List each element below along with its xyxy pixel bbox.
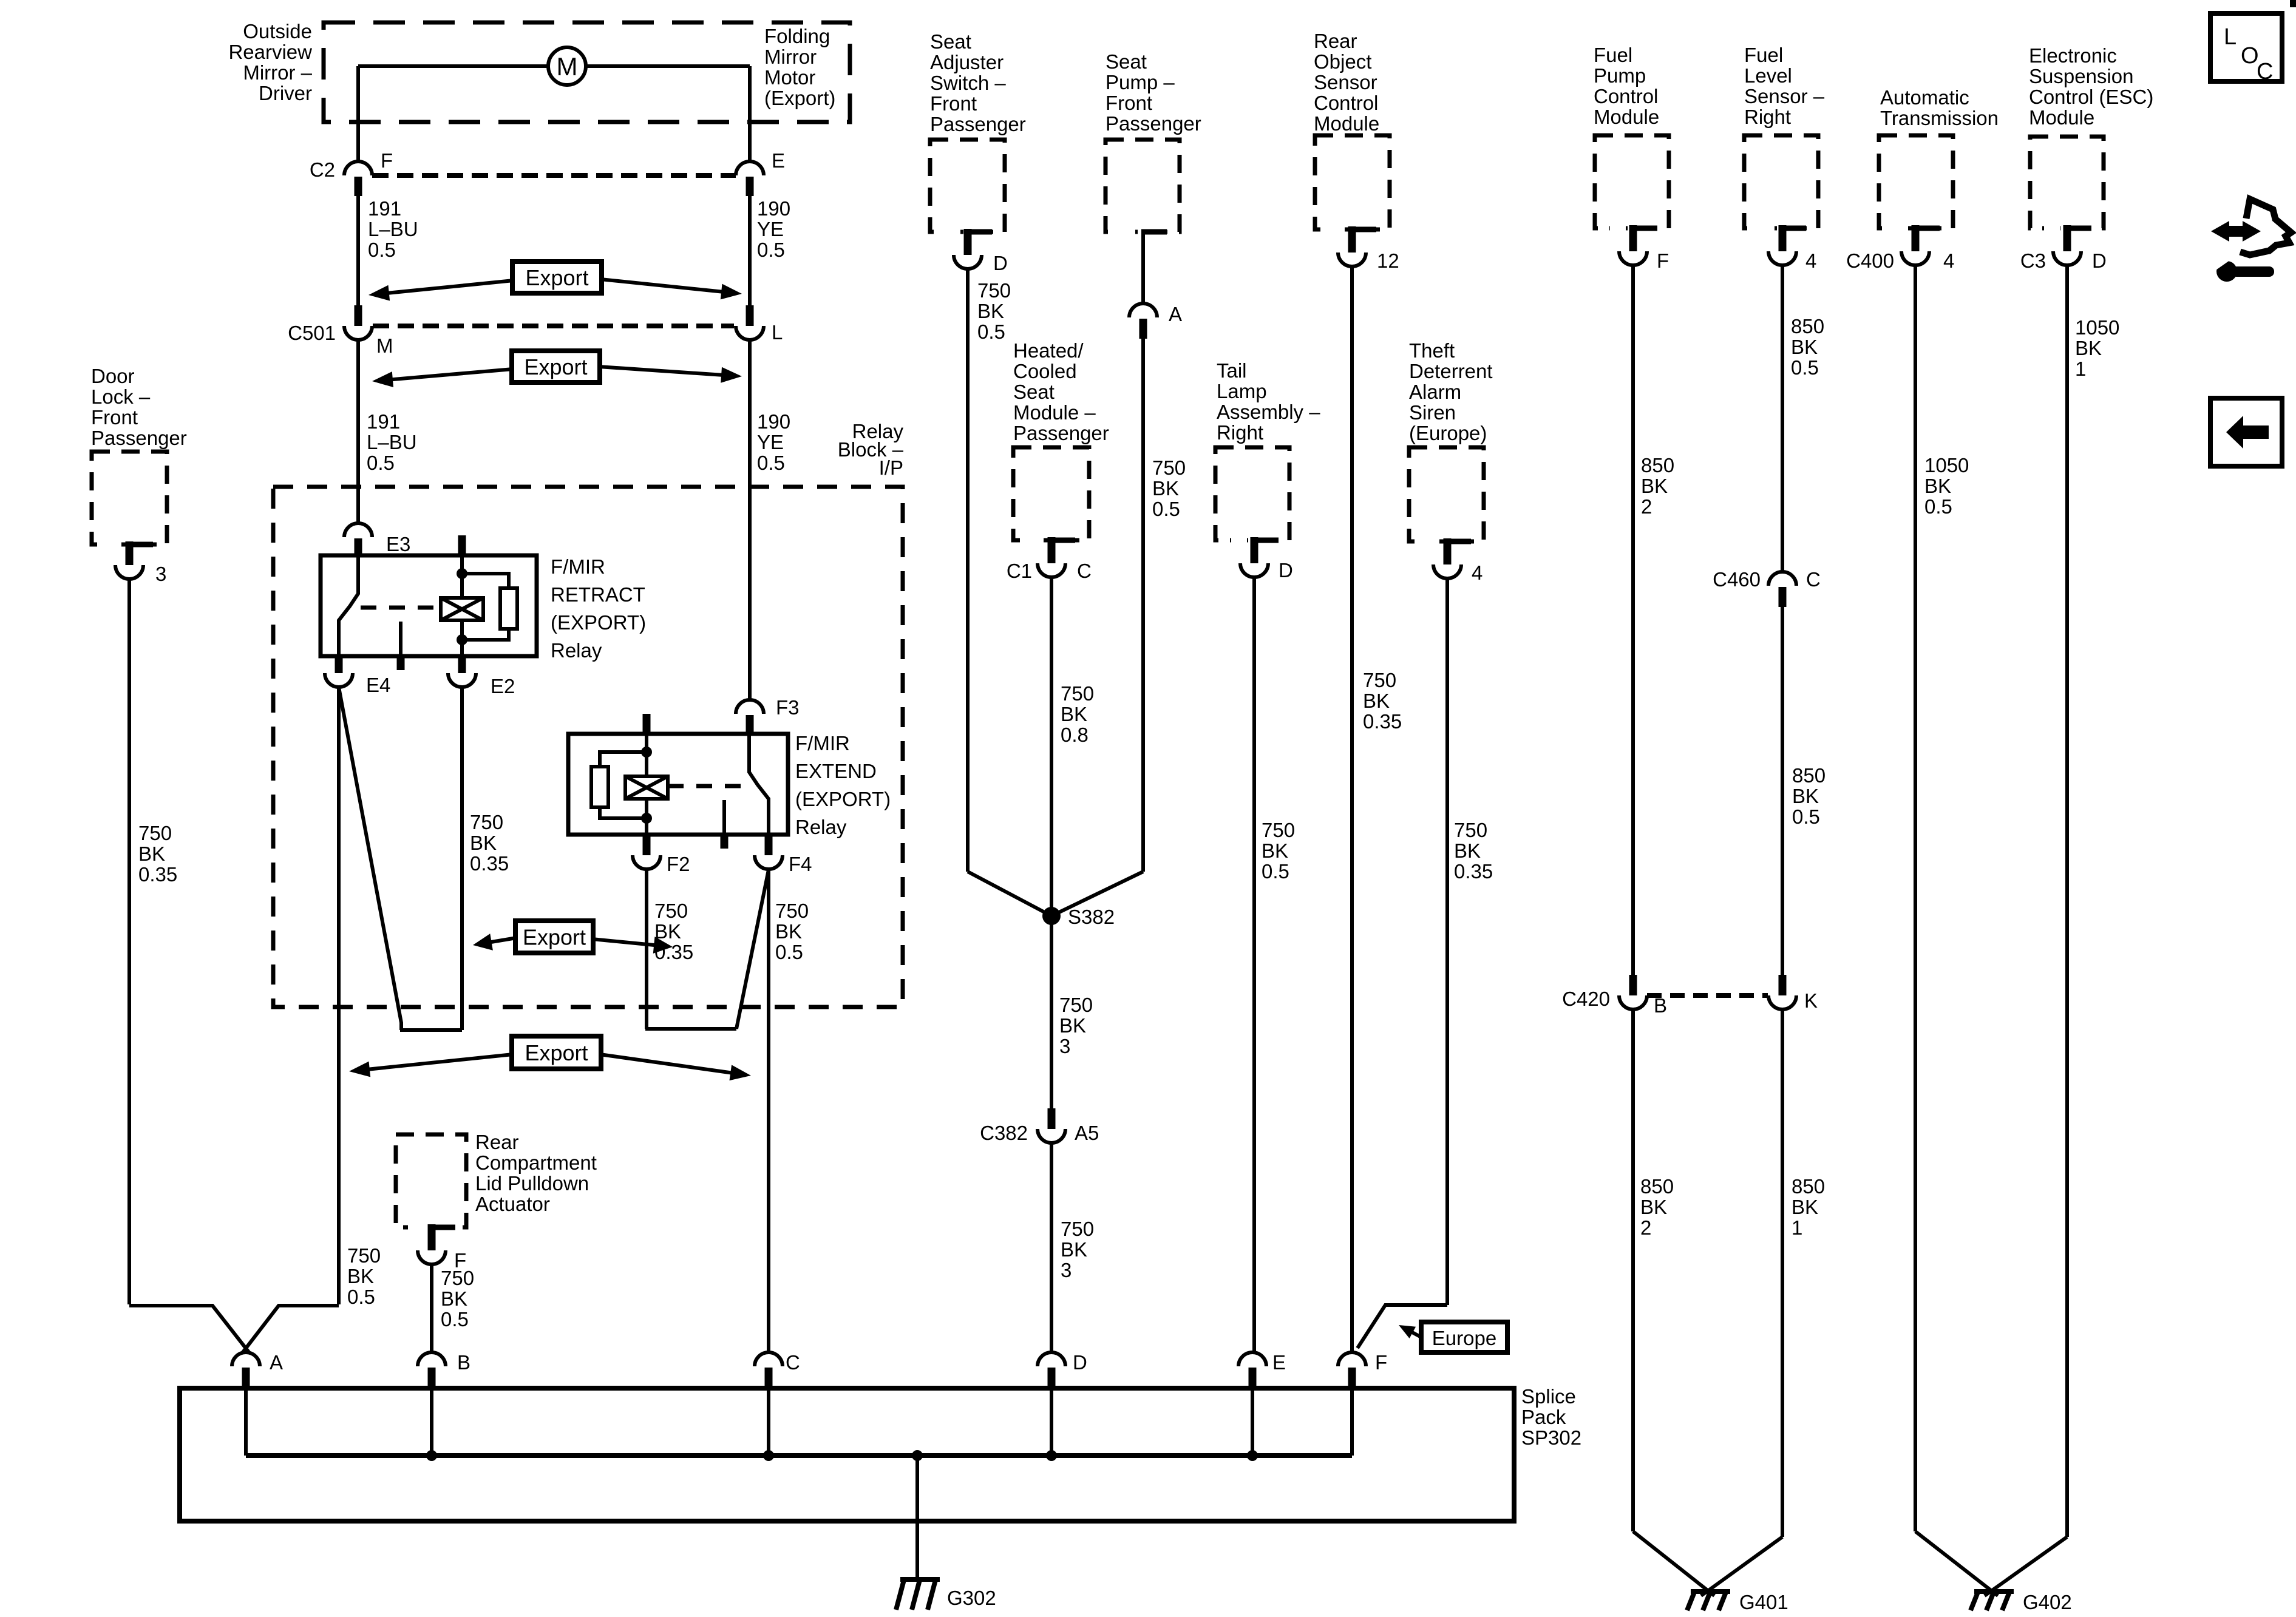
wire 750 BK 0.5 seat adjuster down (966, 269, 970, 872)
svg-text:12: 12 (1377, 249, 1399, 272)
connector rear compartment pin F (418, 1250, 446, 1264)
connector seat pump pin A (1129, 303, 1157, 317)
svg-text:F: F (1375, 1351, 1387, 1374)
ground G401 (1687, 1592, 1730, 1610)
svg-text:4: 4 (1943, 249, 1954, 272)
terminal stub C420-K (1779, 975, 1787, 995)
relay K1 coil bottom lead (460, 620, 464, 656)
connector tail lamp pin D (1240, 563, 1268, 577)
terminal stub C460-C (1779, 587, 1787, 607)
wire 750 BK 0.5 tail lamp down to splice E (1252, 577, 1256, 1353)
relay K1 coil top terminal stub (458, 535, 466, 555)
icon double arrow (2211, 221, 2229, 242)
component box Rear Object Sensor Control Module (1315, 135, 1390, 229)
svg-text:L: L (2224, 24, 2237, 50)
connector relay block terminal F3 (736, 700, 764, 714)
terminal stub fuel pump F (1629, 225, 1637, 251)
connector relay block terminal F2 (633, 855, 661, 869)
svg-text:4: 4 (1472, 561, 1483, 584)
terminal stub C501-M (355, 305, 362, 326)
terminal stub rear object 12 (1348, 226, 1356, 253)
relay K1 coil top lead (460, 555, 464, 598)
relay K2 coil X diagonal 2 (625, 776, 668, 799)
relay K1 coil box (441, 598, 483, 620)
relay K1 actuation dashed link (361, 606, 441, 610)
relay K2 coil X diagonal 1 (625, 776, 668, 799)
junction coil top K1 (457, 568, 467, 579)
wire motor feed horizontal (358, 64, 750, 68)
connector splice terminal C (755, 1352, 783, 1366)
svg-text:A5: A5 (1075, 1122, 1099, 1144)
relay K1 resistor loop top (462, 574, 509, 588)
component box Rear Compartment Lid Pulldown Actuator (396, 1134, 466, 1227)
icon LOC box (2210, 13, 2282, 81)
connector relay block terminal E4 (325, 673, 353, 687)
connector C460 pin C (1768, 572, 1796, 586)
relay K2 resistor loop bottom (600, 807, 647, 818)
terminal stub E4 (335, 656, 343, 673)
svg-text:E2: E2 (491, 675, 515, 697)
terminal stub F4 (765, 835, 773, 855)
relay K2 resistor (591, 767, 608, 807)
wire slant up to F4 (736, 870, 769, 1029)
svg-text:E: E (772, 149, 785, 172)
connector C400 pin 4 (1901, 251, 1929, 265)
export arrow left third (479, 938, 517, 944)
relay K1 NC stub inner (399, 622, 402, 654)
connector C3 pin D (2053, 251, 2081, 265)
svg-text:C1: C1 (1007, 560, 1032, 582)
wire fuel level slant to G401 (1701, 1537, 1782, 1596)
wire 191 L-BU lower to E3 (356, 340, 360, 523)
export arrow left fourth (355, 1054, 513, 1071)
svg-text:D: D (1279, 559, 1293, 581)
wire door lock jog to splice A (129, 1306, 250, 1353)
connector C2 terminal E (736, 161, 764, 175)
wire E4 slant to E2 U-joint (339, 687, 401, 1030)
relay K1 F/MIR RETRACT (EXPORT) box (321, 555, 537, 656)
connector C501 terminal L (736, 326, 764, 340)
ground G402 (1971, 1592, 2014, 1610)
wire 750 BK 0.5 rear compartment down (430, 1264, 433, 1353)
svg-text:C3: C3 (2020, 249, 2046, 272)
terminal stub C2-F (355, 177, 362, 196)
europe arrow (1404, 1328, 1421, 1337)
svg-text:C460: C460 (1713, 568, 1761, 591)
junction splice bus (426, 1450, 437, 1461)
svg-text:B: B (457, 1351, 470, 1374)
connector C382 pin A5 (1038, 1129, 1065, 1143)
callout Export upper (512, 262, 602, 293)
splice pack SP302 box (180, 1388, 1514, 1521)
svg-text:G401: G401 (1739, 1591, 1788, 1613)
svg-text:F: F (1657, 249, 1669, 272)
svg-text:C2: C2 (310, 158, 335, 181)
svg-text:D: D (1073, 1351, 1087, 1374)
callout Export fourth (512, 1036, 601, 1069)
connector mating line C501 row (373, 324, 734, 328)
wire 850 BK 0.5 lower (1781, 607, 1784, 975)
relay K2 resistor loop top (600, 752, 647, 767)
icon back arrow (2226, 416, 2269, 449)
splice internal lead A (244, 1388, 248, 1456)
wire 190 YE lower to F3 (748, 340, 752, 700)
wire left mirror drop to C2 (356, 66, 360, 162)
wire theft jog to splice F (1357, 1305, 1447, 1348)
wire 750 BK 0.5 seat pump down (1141, 339, 1145, 872)
wire U-joint F2-F4 (645, 1027, 736, 1031)
terminal stub C420-B (1629, 975, 1637, 995)
terminal stub F3 (746, 715, 754, 734)
terminal stub rear compartment F (428, 1224, 436, 1250)
splice internal lead B (430, 1388, 433, 1456)
wire 1050 BK 1 down (2065, 265, 2069, 1537)
connector mating line C2 row (372, 173, 736, 178)
terminal stub theft 4 (1444, 538, 1452, 564)
connector splice terminal D (1038, 1352, 1065, 1366)
terminal stub E2 (458, 656, 466, 673)
relay K1 switch (339, 555, 358, 656)
relay K2 coil box (625, 776, 668, 799)
relay K1 coil X diagonal 1 (441, 598, 483, 620)
export arrow right second (599, 367, 736, 376)
wire 850 BK 0.5 upper (1781, 265, 1784, 572)
svg-text:F2: F2 (667, 853, 690, 875)
svg-text:C420: C420 (1562, 988, 1610, 1010)
component box Fuel Level Sensor - Right (1744, 135, 1818, 228)
relay K1 coil X diagonal 2 (441, 598, 483, 620)
export arrow right third (592, 939, 667, 946)
svg-text:L: L (772, 321, 783, 344)
wire 190 YE upper (748, 196, 752, 305)
wire seat pump to connector A (1141, 232, 1145, 304)
ground G302 (896, 1579, 940, 1610)
terminal stub tail lamp D (1251, 537, 1258, 563)
callout Export third (515, 921, 593, 953)
svg-text:C: C (786, 1351, 800, 1374)
component box Door Lock - Front Passenger (92, 452, 167, 544)
svg-text:D: D (993, 252, 1008, 274)
relay K2 F/MIR EXTEND (EXPORT) box (568, 734, 788, 835)
connector C2 terminal F (344, 161, 372, 175)
terminal stub C400-4 (1912, 225, 1920, 251)
connector splice terminal B (418, 1352, 446, 1366)
relay K2 coil top lead (645, 734, 648, 776)
svg-text:3: 3 (155, 563, 166, 585)
wire E4 branch down to splice A (337, 687, 341, 1304)
terminal stub heated seat C1-C (1048, 537, 1056, 563)
terminal stub splice E (1249, 1368, 1257, 1388)
junction splice center drop (912, 1450, 923, 1461)
wire E4 jog to splice A (242, 1306, 339, 1353)
connector seat adjuster pin D (954, 255, 982, 269)
component box ESC Module (2030, 137, 2104, 228)
terminal stub C2-E (746, 177, 754, 196)
icon component outline (2240, 199, 2291, 255)
wire auto trans slant to G402 (1915, 1531, 1998, 1596)
svg-text:A: A (270, 1351, 283, 1374)
splice S382 (1042, 907, 1061, 925)
connector mating line C420 (1647, 993, 1768, 998)
icon wrench (2216, 261, 2237, 282)
wire ESC slant to G402 (1985, 1537, 2067, 1596)
svg-text:C: C (1806, 568, 1821, 591)
relay K2 NC stub inner (722, 800, 726, 833)
component box Tail Lamp Assembly - Right (1215, 447, 1289, 540)
terminal stub C382-A5 (1048, 1108, 1056, 1129)
wire 750 BK 3 down to C382 (1050, 916, 1053, 1108)
export arrow left second (378, 369, 513, 381)
wire F4 down to splice C (767, 869, 770, 1353)
svg-text:M: M (557, 52, 578, 81)
terminal stub C501-L (746, 305, 754, 326)
splice bus SP302 (246, 1453, 1352, 1458)
connector fuel pump pin F (1619, 251, 1647, 265)
terminal stub splice A (242, 1368, 250, 1388)
wire 850 BK 2 fuel pump down (1631, 265, 1635, 975)
svg-text:K: K (1804, 989, 1818, 1012)
connector fuel level pin 4 (1768, 251, 1796, 265)
callout Europe (1421, 1322, 1507, 1352)
component box Theft Deterrent Alarm Siren (1409, 447, 1484, 541)
svg-text:M: M (376, 334, 393, 357)
wire F2 down (645, 869, 648, 1029)
connector splice terminal E (1238, 1352, 1266, 1366)
export arrow right upper (600, 279, 736, 293)
connector C501 terminal M (344, 326, 372, 340)
terminal stub door lock pin 3 (126, 541, 134, 565)
wire seat adjuster slant to S382 (968, 872, 1051, 916)
page corner mark (2290, 0, 2296, 7)
terminal stub F2 (643, 835, 651, 855)
wire 850 BK 2 lower (1631, 1009, 1635, 1531)
svg-text:Export: Export (523, 925, 586, 950)
terminal stub seat pump A (1140, 319, 1147, 339)
component box Heated/Cooled Seat Module (1013, 447, 1089, 540)
component box Outside Rearview Mirror / Folding Mirror Motor (324, 22, 850, 122)
wire fuel pump slant to G401 (1633, 1531, 1714, 1596)
junction splice bus (763, 1450, 774, 1461)
svg-text:C: C (2257, 59, 2273, 84)
wire seat pump slant to S382 (1051, 872, 1143, 916)
terminal stub splice C (765, 1368, 773, 1388)
connector relay block terminal E3 (344, 523, 372, 537)
svg-text:D: D (2092, 249, 2107, 272)
icon back-arrow box (2210, 398, 2282, 466)
wire 850 BK 1 down (1781, 1009, 1784, 1537)
relay K1 NC stub outer (397, 654, 405, 670)
terminal stub E3 (355, 538, 362, 556)
junction splice bus (1046, 1450, 1057, 1461)
junction coil bottom K2 (641, 813, 652, 824)
svg-text:F: F (381, 149, 393, 172)
connector splice terminal A (232, 1352, 260, 1366)
svg-text:C400: C400 (1846, 249, 1894, 272)
component box Automatic Transmission (1879, 135, 1953, 228)
svg-text:G402: G402 (2023, 1591, 2072, 1613)
component box Seat Adjuster Switch (930, 140, 1005, 232)
svg-text:C382: C382 (980, 1122, 1028, 1144)
wire 1050 BK 0.5 down (1914, 265, 1917, 1531)
terminal stub C3-D (2063, 225, 2071, 251)
wire 191 L-BU upper (356, 196, 360, 305)
relay K2 actuation dashed link (668, 784, 747, 788)
wire U-joint E4-E2 (400, 1028, 462, 1032)
connector relay block terminal E2 (448, 673, 476, 687)
connector C420 pin B (1619, 995, 1647, 1009)
connector relay block terminal F4 (755, 855, 783, 869)
svg-text:F4: F4 (789, 853, 812, 875)
svg-text:Europe: Europe (1432, 1327, 1496, 1349)
svg-text:Export: Export (524, 354, 587, 379)
relay K2 coil bottom lead (645, 799, 648, 835)
terminal stub splice D (1048, 1368, 1056, 1388)
connector splice terminal F (1338, 1352, 1366, 1366)
splice internal lead F (1350, 1388, 1354, 1456)
component box Fuel Pump Control Module (1595, 135, 1669, 228)
connector rear object pin 12 (1338, 253, 1366, 266)
svg-text:E: E (1272, 1351, 1286, 1374)
connector C420 pin K (1768, 995, 1796, 1009)
svg-text:Export: Export (525, 265, 588, 290)
connector theft pin 4 (1433, 564, 1461, 578)
terminal stub splice F (1348, 1368, 1356, 1388)
wire 750 BK 0.35 rear object down to splice F (1350, 266, 1354, 1353)
terminal stub seat adjuster D (964, 229, 972, 255)
svg-text:A: A (1169, 303, 1182, 325)
splice internal lead C (767, 1388, 770, 1456)
wire right mirror drop to E (748, 66, 752, 162)
connector heated seat C1 pin C (1038, 563, 1065, 577)
export arrow left upper (375, 280, 514, 294)
wire 750 BK 0.35 door lock down (127, 579, 131, 1304)
junction splice bus (1247, 1450, 1258, 1461)
relay K1 resistor (500, 588, 517, 629)
splice internal lead D (1050, 1388, 1053, 1456)
relay K2 switch (749, 734, 769, 835)
terminal stub fuel level 4 (1779, 225, 1787, 251)
svg-text:F3: F3 (776, 696, 800, 719)
callout Export second (512, 351, 600, 382)
svg-text:4: 4 (1805, 249, 1816, 272)
wire 750 BK 3 down to splice D (1050, 1143, 1053, 1353)
motor M1 folding mirror motor (548, 47, 586, 85)
svg-text:C: C (1077, 560, 1092, 582)
svg-text:C501: C501 (288, 322, 336, 344)
wire 750 BK 0.35 E2 down (460, 687, 464, 1030)
relay K1 resistor loop bottom (462, 629, 509, 640)
wire 750 BK 0.35 theft down (1445, 578, 1449, 1305)
svg-text:E3: E3 (386, 533, 410, 555)
svg-text:S382: S382 (1068, 906, 1115, 928)
svg-text:G302: G302 (947, 1587, 996, 1609)
svg-text:Export: Export (525, 1040, 588, 1065)
connector door lock pin 3 (115, 565, 143, 579)
wire 750 BK 0.8 heated seat down (1050, 577, 1053, 916)
export arrow right fourth (600, 1054, 745, 1075)
splice internal lead E (1251, 1388, 1254, 1456)
junction coil top K2 (641, 747, 652, 758)
terminal stub splice B (428, 1368, 436, 1388)
relay K2 NC stub outer (721, 833, 729, 849)
junction coil bottom K1 (457, 634, 467, 645)
component box Seat Pump (1106, 140, 1180, 232)
component box Relay Block - I/P (273, 487, 903, 1007)
relay K2 coil top terminal stub (643, 714, 651, 734)
wire SP302 to G302 (915, 1456, 919, 1579)
svg-text:E4: E4 (366, 674, 390, 696)
